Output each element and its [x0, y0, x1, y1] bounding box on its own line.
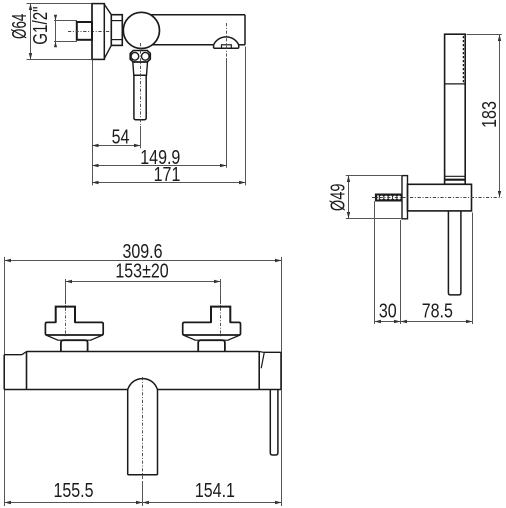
- svg-text:154.1: 154.1: [195, 479, 235, 501]
- flange top edge: [91, 3, 105, 5]
- flange cone top: [104, 4, 111, 14]
- outlet bottom: [214, 47, 239, 49]
- extension line wand top: [467, 34, 502, 36]
- right union cone base shelf: [195, 339, 229, 341]
- left union taper left: [46, 335, 58, 340]
- knurl ring 4: [393, 196, 397, 200]
- right cap lever seam: [261, 352, 264, 368]
- arrow 171 left: [92, 181, 99, 184]
- wall extension line: [92, 59, 94, 185]
- dimension D64 line: [30, 4, 32, 60]
- spout dome front: [128, 379, 158, 390]
- knurl ring 1: [380, 196, 384, 200]
- dimension 153+-20 line: [66, 281, 221, 283]
- arrow D64 bottom: [29, 53, 32, 60]
- left union escutcheon: [45, 322, 103, 335]
- arrow G1/2 bottom outside: [54, 42, 57, 48]
- arrow G1/2 top outside: [54, 15, 57, 21]
- outlet extension line: [226, 58, 228, 168]
- left union pipe: [56, 307, 75, 323]
- knurl ring gap: [377, 195, 379, 199]
- svg-text:Ø49: Ø49: [326, 184, 349, 212]
- mixer body circle: [123, 12, 159, 48]
- dimension D49 line: [348, 176, 350, 219]
- arrow 309.6 right: [275, 259, 282, 262]
- spout bottom line left: [153, 44, 214, 46]
- arrow 153 right: [214, 280, 221, 283]
- body bottom line right: [158, 389, 282, 391]
- arrow 30 left: [375, 320, 382, 323]
- left cap face: [3, 355, 5, 390]
- arrow 54 right: [134, 144, 141, 147]
- outlet centerline: [226, 23, 228, 57]
- hex facet line top: [111, 20, 122, 22]
- hose knurl block: [375, 194, 402, 201]
- wand lower ring: [445, 175, 466, 177]
- flange bottom edge: [91, 58, 105, 60]
- arrow 154.1 left: [143, 501, 150, 504]
- extension line flange49 top: [346, 175, 402, 177]
- left cap seam: [26, 352, 28, 390]
- svg-text:30: 30: [379, 300, 397, 322]
- svg-text:153±20: 153±20: [115, 260, 168, 282]
- outlet right side: [238, 45, 240, 48]
- handle extension line: [140, 126, 142, 148]
- hex facet line bottom: [111, 39, 122, 41]
- extension line body right: [281, 257, 283, 506]
- spout centerline front: [142, 377, 144, 480]
- left union taper right: [91, 335, 103, 340]
- extension line wall face right: [400, 220, 402, 324]
- spout tube bottom: [128, 474, 158, 476]
- dimension 183 line: [499, 34, 501, 197]
- arrow 54 left: [92, 144, 99, 147]
- left cap top: [4, 354, 22, 356]
- svg-text:54: 54: [112, 126, 130, 148]
- spout end extension line: [245, 47, 247, 186]
- centerline right union: [220, 300, 222, 337]
- body bottom line left: [4, 389, 128, 391]
- arrow 153 left: [66, 280, 73, 283]
- spout bottom line right: [239, 44, 245, 46]
- arrow 149.9 right: [220, 164, 227, 167]
- right cap top: [264, 351, 282, 353]
- dimension 149.9 line: [92, 165, 226, 167]
- right union nut: [198, 340, 225, 351]
- arrow 78.5 right: [466, 320, 473, 323]
- spout end face: [244, 15, 246, 45]
- spout top line: [151, 14, 246, 16]
- bracket centerline: [372, 197, 502, 199]
- pipe centerline: [68, 31, 112, 33]
- svg-text:155.5: 155.5: [53, 479, 93, 501]
- arrow 30 right: [394, 320, 401, 323]
- shower handle: [448, 211, 461, 295]
- bracket body: [408, 184, 472, 211]
- left cap chamfer: [22, 352, 27, 355]
- dimension 155.5 154.1 line: [4, 502, 282, 504]
- wand lower ring 2: [445, 179, 466, 181]
- outlet dome: [214, 37, 239, 45]
- svg-text:Ø64: Ø64: [8, 14, 30, 39]
- arrow 78.5 left: [401, 320, 408, 323]
- right union pipe: [211, 307, 230, 323]
- extension line left union: [65, 279, 67, 304]
- left union cone base shelf: [57, 339, 91, 341]
- wall flange front face: [103, 4, 105, 60]
- shower wand body: [445, 34, 466, 184]
- handle rod: [134, 75, 146, 120]
- body top line: [27, 351, 260, 353]
- dimension 171 line: [92, 182, 245, 184]
- arrow 155.5 left: [5, 501, 12, 504]
- extension line bracket end: [472, 213, 474, 325]
- handle ball right: [141, 52, 149, 60]
- arrow 183 top: [498, 35, 501, 42]
- dimension G1/2 line: [55, 17, 57, 45]
- knurl ring 5: [397, 196, 401, 200]
- svg-text:78.5: 78.5: [422, 300, 453, 322]
- front handle bar: [270, 390, 278, 456]
- wall flange back face: [91, 4, 93, 60]
- right union taper right: [228, 335, 240, 340]
- svg-text:183: 183: [479, 101, 501, 128]
- arrow D49 bottom: [347, 212, 350, 219]
- extension line flange49 bottom: [346, 218, 402, 220]
- arrow 309.6 left: [5, 259, 12, 262]
- svg-text:171: 171: [154, 163, 181, 185]
- centerline left union: [65, 300, 67, 337]
- right cap chamfer: [259, 351, 263, 354]
- aerator: [222, 45, 232, 48]
- wand division line: [445, 83, 466, 85]
- outlet left side: [213, 45, 215, 48]
- extension line right union: [220, 279, 222, 304]
- arrow 171 right: [239, 181, 246, 184]
- right seam: [258, 352, 260, 390]
- left union nut: [61, 340, 88, 351]
- right union taper left: [183, 335, 195, 340]
- flange cone bottom: [104, 45, 111, 58]
- handle neck: [133, 62, 148, 75]
- extension line pipe top: [54, 20, 77, 22]
- dimension 309.6 line: [4, 260, 282, 262]
- handle hex block: [130, 51, 150, 63]
- dimension 54 line: [92, 145, 140, 147]
- knurl ring 3: [389, 196, 393, 200]
- spout tube left: [127, 390, 129, 475]
- arrow 183 bottom: [498, 191, 501, 198]
- spout tube right: [157, 390, 159, 475]
- spout extension line: [142, 481, 144, 506]
- extension line knurl end: [374, 201, 376, 324]
- extension line pipe bottom: [54, 41, 77, 43]
- wand spray dotted line: [462, 36, 464, 83]
- arrow D49 top: [347, 176, 350, 183]
- arrow 155.5 right: [136, 501, 143, 504]
- right union escutcheon: [183, 322, 241, 335]
- extension line body left: [4, 257, 6, 506]
- inlet pipe G1/2: [77, 22, 92, 40]
- arrow 149.9 left: [92, 164, 99, 167]
- right cap face: [280, 352, 282, 389]
- dimension 30 and 78.5 line: [375, 321, 472, 323]
- extension line flange bottom: [27, 59, 92, 61]
- svg-text:G1/2": G1/2": [29, 6, 52, 44]
- arrow D64 top: [29, 4, 32, 11]
- wall flange right view: [402, 176, 408, 219]
- extension line flange top: [27, 3, 92, 5]
- handle centerline: [140, 43, 142, 126]
- knurl ring 2: [384, 196, 388, 200]
- hex nut side view: [111, 15, 122, 46]
- arrow 154.1 right: [275, 501, 282, 504]
- handle ball left: [131, 52, 139, 60]
